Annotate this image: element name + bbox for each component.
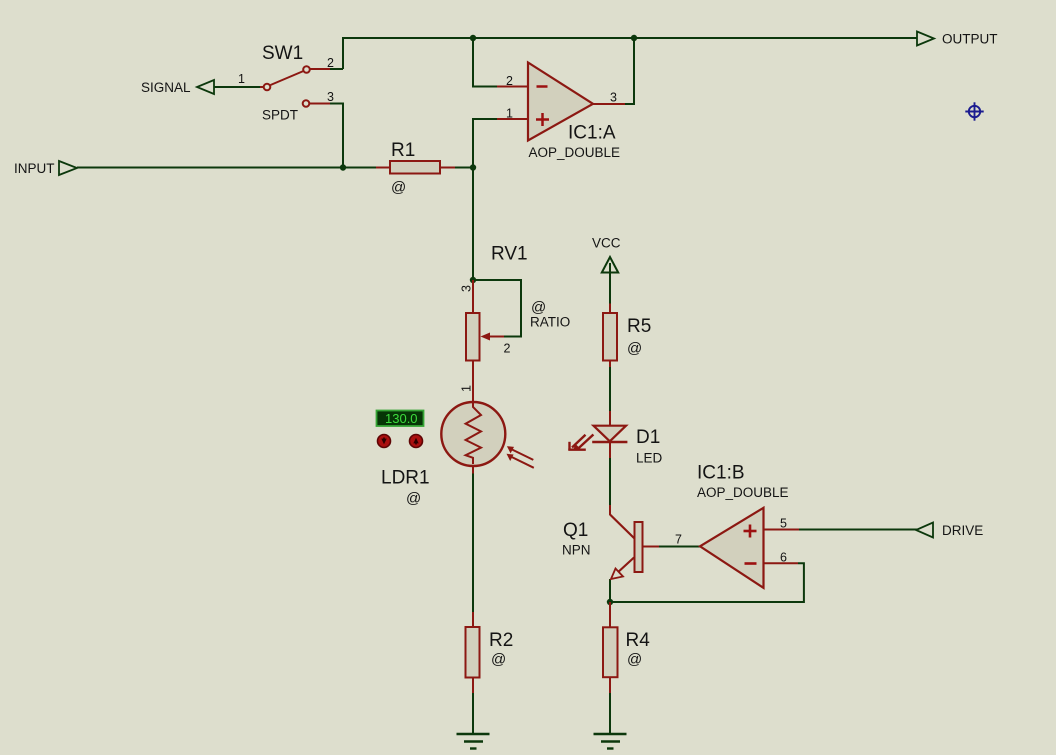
- resistor R5: [603, 304, 617, 368]
- terminal OUTPUT: [917, 32, 934, 46]
- svg-text:Q1: Q1: [563, 520, 588, 541]
- svg-text:R2: R2: [489, 630, 513, 651]
- svg-text:1: 1: [460, 385, 474, 392]
- svg-text:7: 7: [675, 533, 682, 547]
- junction Q1 emitter / R4 / feedback: [607, 599, 613, 605]
- wire Q1 emitter down: [609, 579, 611, 602]
- svg-text:SIGNAL: SIGNAL: [141, 80, 191, 95]
- svg-text:LED: LED: [636, 451, 663, 466]
- wire IC1:B pin6 feedback to emitter: [610, 563, 804, 602]
- button increase light: [410, 435, 423, 448]
- svg-text:3: 3: [460, 285, 474, 292]
- origin marker: [965, 102, 983, 120]
- svg-text:@: @: [627, 340, 642, 357]
- svg-text:6: 6: [780, 551, 787, 565]
- svg-text:@: @: [627, 651, 642, 668]
- junction R1 right / feedback column: [470, 164, 476, 170]
- display light level 130.0: [377, 411, 424, 427]
- terminal DRIVE: [916, 523, 933, 538]
- wire pin1 riser: [473, 119, 497, 168]
- svg-text:3: 3: [327, 90, 334, 104]
- terminal SIGNAL: [197, 80, 214, 94]
- svg-text:INPUT: INPUT: [14, 161, 55, 176]
- wire R1 junction down to RV1: [472, 168, 474, 281]
- ground at R4: [594, 734, 627, 749]
- LDR LDR1: [441, 402, 534, 474]
- svg-text:2: 2: [504, 342, 511, 356]
- svg-text:@: @: [491, 651, 506, 668]
- junction IC1:A output top rail: [631, 35, 637, 41]
- junction feedback top rail: [470, 35, 476, 41]
- svg-text:1: 1: [238, 72, 245, 86]
- svg-text:AOP_DOUBLE: AOP_DOUBLE: [529, 145, 621, 160]
- svg-text:R4: R4: [626, 630, 651, 651]
- wire R2 to ground: [472, 693, 474, 734]
- svg-text:RATIO: RATIO: [530, 315, 570, 330]
- power VCC: [602, 257, 618, 273]
- svg-text:DRIVE: DRIVE: [942, 523, 983, 538]
- wire top output rail: [343, 38, 917, 69]
- svg-text:2: 2: [327, 56, 334, 70]
- wire SIGNAL to SW1 pin1: [214, 86, 260, 88]
- svg-text:R5: R5: [627, 316, 651, 337]
- wire RV1 wiper loop: [473, 280, 521, 337]
- wire R5 to D1: [609, 367, 611, 411]
- wire D1 to Q1 collector: [609, 458, 611, 505]
- wire feedback riser: [473, 38, 497, 87]
- svg-text:5: 5: [780, 517, 787, 531]
- svg-text:RV1: RV1: [491, 244, 528, 265]
- svg-text:130.0: 130.0: [385, 411, 418, 426]
- wire VCC to R5: [609, 266, 611, 304]
- svg-text:R1: R1: [391, 140, 415, 161]
- wire IC1:A output to rail: [625, 38, 634, 104]
- resistor R1: [376, 161, 455, 174]
- junction SW1 pin3 / INPUT net: [340, 164, 346, 170]
- svg-text:IC1:B: IC1:B: [697, 463, 745, 484]
- svg-text:SW1: SW1: [262, 43, 303, 64]
- resistor R2: [466, 612, 480, 693]
- svg-text:NPN: NPN: [562, 543, 591, 558]
- ground at R2: [457, 734, 490, 749]
- svg-text:AOP_DOUBLE: AOP_DOUBLE: [697, 485, 789, 500]
- svg-text:@: @: [406, 490, 421, 507]
- svg-text:1: 1: [506, 107, 513, 121]
- resistor R4: [603, 602, 618, 693]
- svg-text:3: 3: [610, 91, 617, 105]
- wire R1 to feedback column: [455, 167, 473, 169]
- svg-text:2: 2: [506, 74, 513, 88]
- wire R4 to ground: [609, 693, 611, 734]
- svg-text:SPDT: SPDT: [262, 108, 298, 123]
- junction RV1 top: [470, 277, 476, 283]
- op-amp IC1:A: [497, 63, 625, 141]
- svg-text:@: @: [531, 299, 546, 316]
- wire INPUT to R1: [77, 167, 376, 169]
- wire IC1:B pin5 to DRIVE: [799, 529, 917, 531]
- potentiometer RV1: [466, 280, 504, 402]
- svg-text:IC1:A: IC1:A: [568, 123, 616, 144]
- wire LDR to R2: [472, 474, 474, 613]
- svg-text:@: @: [391, 179, 406, 196]
- switch SW1: [260, 66, 330, 107]
- wire SW1 pin2 stub to riser: [330, 68, 343, 70]
- LED D1: [568, 411, 627, 458]
- svg-text:VCC: VCC: [592, 236, 621, 251]
- transistor Q1: [610, 505, 659, 579]
- svg-text:OUTPUT: OUTPUT: [942, 32, 998, 47]
- terminal INPUT: [59, 161, 77, 175]
- button decrease light: [378, 435, 391, 448]
- wire Q1 base to IC1:B: [659, 546, 700, 548]
- svg-text:D1: D1: [636, 427, 660, 448]
- svg-text:LDR1: LDR1: [381, 468, 430, 489]
- op-amp IC1:B: [700, 508, 799, 588]
- wire SW1 pin3 to input net: [330, 104, 343, 168]
